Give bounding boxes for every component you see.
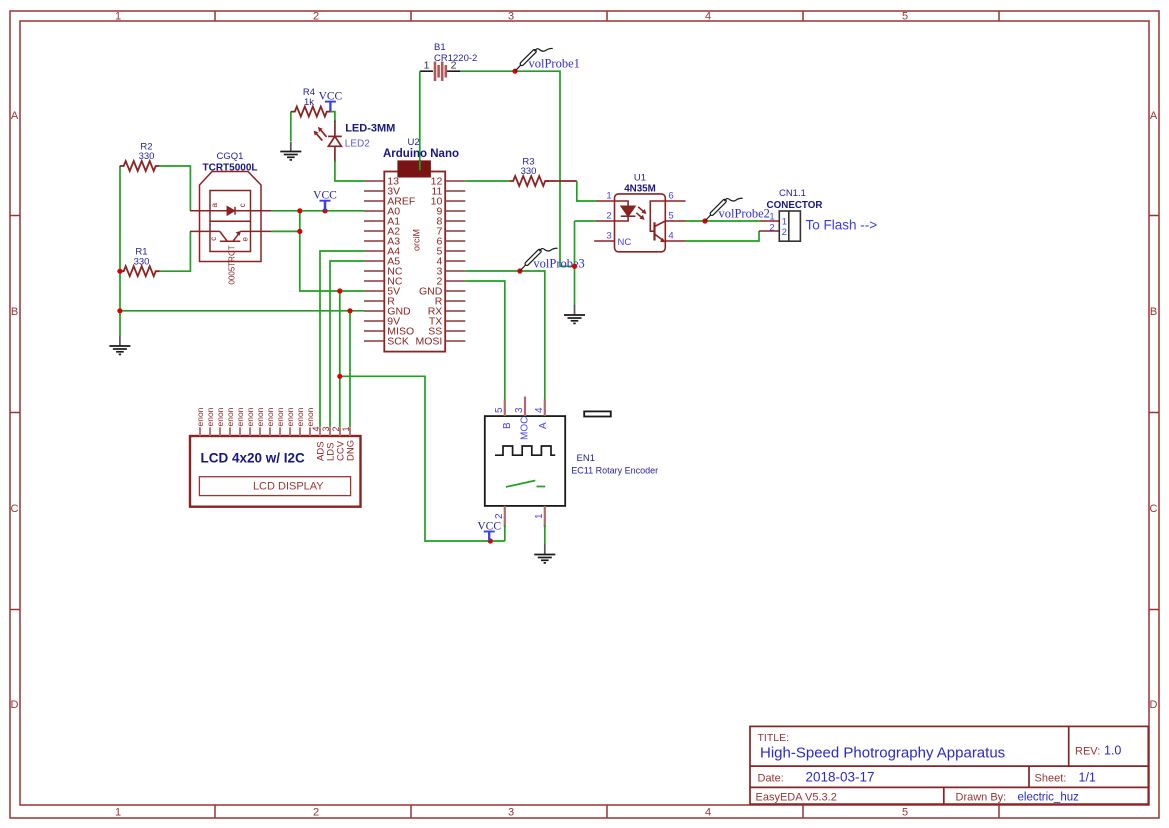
svg-text:c: c	[238, 203, 247, 207]
svg-text:5: 5	[902, 11, 908, 23]
voltage probe volProbe2	[706, 198, 743, 220]
LCD module LCD 4x20 w/ I2C	[190, 436, 361, 507]
battery B1 CR1220-2	[420, 60, 461, 82]
svg-text:3: 3	[606, 231, 611, 242]
svg-text:LED-3MM: LED-3MM	[345, 123, 395, 135]
connector CN1.1 CONECTOR	[779, 211, 800, 241]
wire CGQ1 a to U2 A0	[271, 210, 364, 212]
svg-text:High-Speed Photrography Appara: High-Speed Photrography Apparatus	[760, 745, 1005, 762]
wire B1.2 net	[460, 71, 575, 266]
wire U1 5 to CN1 pin1	[686, 220, 761, 222]
svg-text:3: 3	[514, 407, 525, 413]
svg-text:VCC: VCC	[477, 521, 501, 533]
ground (EN1)	[534, 545, 555, 563]
svg-text:4: 4	[311, 426, 321, 431]
resistor R1 (330)	[120, 266, 160, 276]
svg-text:B: B	[1150, 306, 1157, 318]
svg-text:Sheet:: Sheet:	[1035, 773, 1067, 785]
wire GND rail	[120, 310, 364, 312]
svg-text:e: e	[241, 237, 250, 242]
voltage probe volProbe1	[516, 48, 553, 70]
svg-text:3: 3	[508, 11, 514, 23]
wire U2 12 to R3	[465, 180, 509, 182]
svg-text:1: 1	[424, 60, 430, 72]
LCD pin numbers 4 3 2 1	[311, 426, 351, 431]
svg-text:1: 1	[115, 11, 121, 23]
junction volProbe2	[702, 218, 707, 223]
svg-text:4N35M: 4N35M	[624, 184, 656, 195]
svg-text:4: 4	[705, 11, 711, 23]
svg-text:4: 4	[534, 407, 545, 413]
svg-text:5: 5	[494, 407, 505, 413]
svg-text:enon: enon	[245, 407, 255, 426]
svg-text:MOSI: MOSI	[415, 336, 442, 348]
svg-text:To Flash -->: To Flash -->	[806, 218, 878, 233]
svg-text:1: 1	[534, 513, 545, 519]
svg-text:CONECTOR: CONECTOR	[767, 200, 823, 211]
svg-text:enon: enon	[235, 407, 245, 426]
svg-text:5: 5	[668, 211, 673, 222]
svg-text:LED2: LED2	[345, 139, 370, 150]
svg-text:enon: enon	[265, 407, 275, 426]
svg-text:3: 3	[508, 807, 514, 819]
junction R1.1	[117, 269, 122, 274]
svg-text:LCD 4x20 w/ I2C: LCD 4x20 w/ I2C	[201, 451, 306, 466]
svg-text:volProbe1: volProbe1	[529, 57, 580, 71]
svg-text:A: A	[1150, 110, 1158, 122]
wire LED2 to U2 pin13	[335, 161, 364, 181]
wire R4.1 to ground	[290, 112, 292, 141]
svg-text:VCC: VCC	[319, 91, 343, 103]
ground (U1)	[564, 305, 585, 323]
U2 pin names	[387, 176, 442, 348]
svg-text:EC11 Rotary Encoder: EC11 Rotary Encoder	[571, 465, 658, 475]
svg-text:D: D	[1150, 699, 1158, 711]
svg-text:B: B	[502, 422, 513, 429]
junction VCC run	[337, 374, 342, 379]
svg-text:MOC: MOC	[520, 417, 531, 440]
svg-text:VCC: VCC	[313, 190, 337, 202]
svg-text:c: c	[209, 237, 218, 241]
svg-text:Arduino Nano: Arduino Nano	[383, 148, 459, 160]
svg-text:REV:: REV:	[1075, 746, 1100, 758]
LCD pin names SDA SDL VCC GND	[316, 440, 357, 461]
EN1 switch symbol	[506, 481, 535, 487]
svg-text:electric_huz: electric_huz	[1018, 792, 1080, 804]
svg-text:TCRT5000L: TCRT5000L	[202, 163, 257, 174]
svg-text:0005TRCT: 0005TRCT	[228, 245, 237, 284]
LCD pins	[200, 427, 350, 436]
power symbol VCC (A0 net)	[320, 201, 331, 211]
svg-text:4: 4	[668, 231, 673, 242]
rotary encoder EN1 EC11	[485, 416, 565, 506]
svg-text:2: 2	[313, 807, 319, 819]
svg-text:B1: B1	[434, 42, 446, 53]
svg-text:1/1: 1/1	[1079, 771, 1096, 785]
power symbol VCC (R4)	[325, 102, 336, 112]
svg-text:1: 1	[115, 807, 121, 819]
svg-text:U2: U2	[408, 137, 420, 148]
title block	[750, 726, 1148, 804]
wire R1.2 to CGQ1 c	[160, 231, 191, 271]
junction A0 net	[297, 208, 302, 213]
svg-text:B: B	[11, 306, 18, 318]
svg-text:D: D	[11, 699, 19, 711]
wire R2.2 to CGQ1 a	[160, 166, 191, 211]
LCD display window	[199, 477, 350, 496]
junction GND at U2	[347, 308, 352, 313]
svg-text:enon: enon	[285, 407, 295, 426]
svg-text:TITLE:: TITLE:	[758, 732, 790, 744]
resistor R4 (1k)	[291, 107, 331, 117]
voltage probe volProbe3	[520, 248, 557, 270]
svg-text:330: 330	[521, 166, 537, 177]
wire node down to U2 5V	[300, 211, 364, 291]
U2 pins left	[364, 181, 465, 341]
svg-text:1: 1	[341, 426, 351, 431]
junction 5V branch	[337, 288, 342, 293]
wire VCC branch to LCD pin2	[339, 291, 341, 427]
optocoupler U1 4N35M	[594, 194, 685, 252]
svg-text:NC: NC	[618, 237, 632, 248]
svg-text:EasyEDA V5.3.2: EasyEDA V5.3.2	[756, 792, 837, 804]
svg-text:Drawn By:: Drawn By:	[956, 792, 1007, 804]
LCD pin labels none	[195, 407, 315, 426]
svg-text:volProbe2: volProbe2	[719, 207, 770, 221]
junction GND rail	[117, 308, 122, 313]
junction VCC EN1	[488, 538, 493, 543]
wire VCC run to EN1 pin2	[340, 376, 505, 541]
wire overlay B1 into USB	[419, 161, 421, 170]
wire B1.1 to U2 USB	[419, 71, 421, 161]
svg-text:enon: enon	[195, 407, 205, 426]
svg-text:1: 1	[769, 212, 774, 223]
svg-text:enon: enon	[225, 407, 235, 426]
svg-text:1.0: 1.0	[1104, 744, 1121, 758]
wire R3.2 to U1 pin1	[577, 181, 596, 201]
junction volProbe3	[517, 268, 522, 273]
wire CGQ1 e to node	[271, 230, 300, 232]
wire EN1 pin2 to VCC	[504, 525, 506, 541]
svg-text:enon: enon	[205, 407, 215, 426]
resistor R2 (330)	[120, 161, 160, 171]
svg-text:volProbe3: volProbe3	[533, 257, 584, 271]
svg-text:CR1220-2: CR1220-2	[434, 53, 477, 64]
svg-text:A: A	[538, 422, 549, 429]
svg-text:C: C	[1150, 503, 1158, 515]
power symbol VCC (EN1)	[484, 532, 495, 542]
svg-text:EN1: EN1	[577, 453, 595, 464]
svg-text:4: 4	[705, 807, 711, 819]
ground (R4)	[280, 142, 301, 160]
svg-text:enon: enon	[255, 407, 265, 426]
wire R4.2 to LED2	[331, 112, 335, 122]
svg-text:LCD DISPLAY: LCD DISPLAY	[253, 481, 324, 493]
svg-text:U1: U1	[634, 173, 646, 184]
svg-text:330: 330	[139, 151, 155, 162]
svg-text:2: 2	[494, 513, 505, 519]
svg-text:2: 2	[606, 211, 611, 222]
svg-text:DNG: DNG	[346, 440, 357, 461]
junction volProbe1	[512, 69, 517, 74]
wire U2 2 to EN1 B	[465, 281, 505, 400]
EN1 pins top	[505, 397, 545, 528]
svg-text:2: 2	[313, 11, 319, 23]
wire U2 3 to EN1 A	[465, 271, 545, 400]
junction B1- GND	[572, 264, 577, 269]
wire U2 A5 to LCD SDL	[330, 261, 364, 427]
svg-text:2: 2	[331, 426, 341, 431]
svg-text:enon: enon	[295, 407, 305, 426]
svg-text:enon: enon	[215, 407, 225, 426]
svg-text:SCK: SCK	[387, 336, 409, 348]
junction e pin	[297, 229, 302, 234]
resistor R3 (330)	[509, 176, 549, 186]
junction VCC at A0	[322, 208, 327, 213]
wire R1.1 down to GND rail	[119, 271, 121, 336]
optical sensor CGQ1 TCRT5000L	[190, 172, 271, 262]
svg-text:2018-03-17: 2018-03-17	[806, 770, 875, 785]
svg-text:CGQ1: CGQ1	[217, 151, 244, 162]
svg-text:a: a	[210, 203, 219, 208]
wire U1 pin2 to ground	[574, 221, 576, 306]
EN1 quadrature wave symbol	[495, 446, 555, 455]
svg-text:2: 2	[769, 222, 774, 233]
LED LED2 LED-3MM	[314, 121, 342, 163]
EN1 pin numbers	[494, 407, 545, 519]
wire U2 A4 to LCD SDA	[320, 251, 364, 427]
svg-text:2: 2	[782, 227, 787, 238]
svg-text:A: A	[11, 110, 19, 122]
svg-text:5: 5	[902, 807, 908, 819]
svg-text:6: 6	[668, 191, 673, 202]
svg-text:1k: 1k	[304, 97, 314, 108]
wire EN1 pin1 to ground	[544, 525, 546, 546]
EN1 pin names B COM A	[502, 417, 549, 440]
svg-text:3: 3	[321, 426, 331, 431]
ground (left rail)	[109, 336, 130, 354]
svg-text:1: 1	[606, 191, 611, 202]
svg-text:330: 330	[134, 256, 150, 267]
svg-text:Date:: Date:	[758, 773, 784, 785]
svg-text:enon: enon	[305, 407, 315, 426]
microcontroller U2 Arduino Nano	[384, 161, 445, 351]
svg-text:enon: enon	[275, 407, 285, 426]
svg-text:orciM: orciM	[412, 229, 422, 251]
small rectangle part	[584, 411, 611, 416]
svg-text:C: C	[11, 503, 19, 515]
wire R2.1 to R1.1	[119, 166, 121, 271]
wire to U1 pin2	[575, 220, 596, 222]
wire GND to LCD pin1	[349, 311, 351, 427]
wire U1 4 to CN1 pin2	[686, 231, 760, 241]
svg-text:CN1.1: CN1.1	[779, 188, 806, 199]
